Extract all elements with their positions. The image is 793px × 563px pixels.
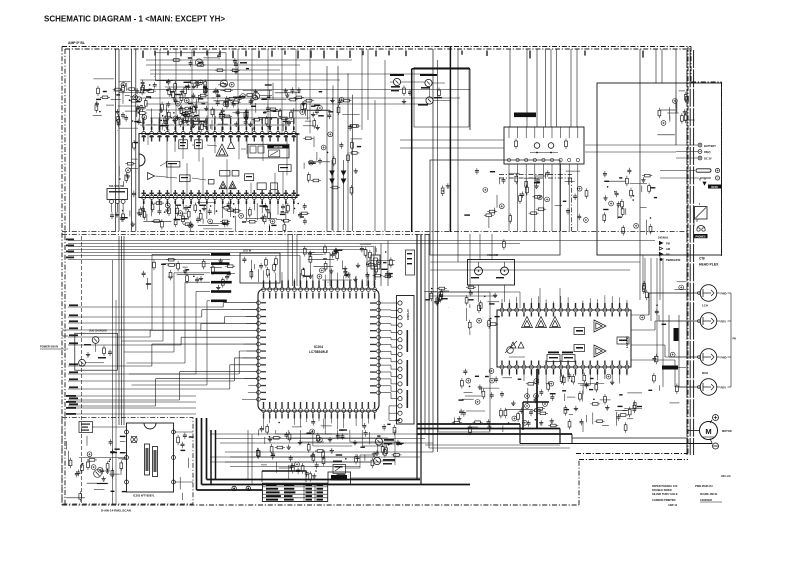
IC203 right parts bbox=[177, 433, 194, 500]
jack section components bbox=[603, 168, 657, 236]
svg-text:C0000022: C0000022 bbox=[700, 498, 713, 502]
signal legend FM bbox=[659, 241, 662, 244]
bias components below IC201 bbox=[137, 201, 310, 232]
board outline bottom-right step border bbox=[578, 460, 580, 506]
components above IC204 bbox=[302, 244, 395, 283]
wire verticals right section bbox=[639, 49, 641, 255]
thick rails to motor area bbox=[417, 423, 520, 425]
wire bus mid elbows down bbox=[387, 241, 389, 287]
volume pot VR201-L bbox=[475, 267, 483, 275]
svg-text:FWD: FWD bbox=[721, 291, 727, 295]
flex badge bbox=[674, 328, 679, 341]
components below power switch bbox=[483, 170, 588, 228]
svg-text:AN7358: AN7358 bbox=[274, 146, 283, 149]
components right of IC202 bbox=[640, 281, 686, 325]
IC201 internal REC OSC block bbox=[179, 140, 188, 149]
wires below power switch bbox=[508, 164, 510, 231]
wires region A horizontals set2 bbox=[146, 64, 300, 66]
terminal pins below table bbox=[232, 486, 236, 490]
wires head bus verticals bbox=[644, 258, 646, 293]
connector CN202 vertical labels bbox=[407, 330, 409, 352]
svg-text:LED IN: LED IN bbox=[243, 250, 251, 253]
transistor Q202 bbox=[220, 80, 227, 87]
motor plus terminal bbox=[713, 415, 719, 421]
op-amp IC IC201 body bbox=[139, 134, 297, 198]
IC204 right pins bbox=[377, 301, 381, 305]
IC202 internal amp triangles with double outline bbox=[522, 317, 533, 328]
remote jack bbox=[695, 207, 708, 220]
left mid components bbox=[142, 258, 236, 289]
board outline top border (double dash-dot) bbox=[62, 46, 691, 48]
IC201 pin row label fill bbox=[146, 133, 149, 135]
IC201 internal F/N SEL blocks bbox=[220, 170, 230, 176]
right mid section outline bbox=[430, 160, 560, 255]
head wiring harness bbox=[693, 292, 695, 294]
IC201 internal PD PB block bbox=[279, 165, 292, 172]
IC201 selector sub blocks bbox=[250, 146, 256, 153]
svg-text:R6(2): R6(2) bbox=[704, 150, 711, 154]
IC203 internal resistor arrays bbox=[145, 444, 150, 475]
LED IN block bbox=[240, 253, 280, 283]
net label column bbox=[211, 253, 230, 256]
svg-text:PB: PB bbox=[666, 253, 670, 257]
jack wiring bbox=[660, 170, 695, 172]
battery terminal circle 3 bbox=[698, 156, 702, 160]
mid-right vertical wires bbox=[642, 255, 644, 290]
wire bus upper left verticals bbox=[131, 49, 133, 231]
board outline left border (double dash-dot) bbox=[61, 47, 63, 506]
IC204 left pins bbox=[257, 301, 261, 305]
transistor Q206 bbox=[94, 470, 102, 478]
svg-text:SCHEMATIC DIAGRAM - 1 <MAIN: E: SCHEMATIC DIAGRAM - 1 <MAIN: EXCEPT YH> bbox=[44, 15, 225, 24]
IC202 VOL blocks bbox=[574, 328, 585, 335]
head flex cable vertical bus bbox=[686, 50, 688, 455]
svg-text:ANP-14: ANP-14 bbox=[668, 503, 678, 507]
connector CN202 pins bbox=[398, 301, 402, 305]
net name labels below top border bbox=[142, 51, 143, 58]
IC203 right pins bbox=[172, 430, 176, 434]
phones badge bbox=[694, 234, 708, 238]
components below IC204 bbox=[256, 419, 403, 474]
components right of IC201 bbox=[303, 91, 362, 196]
IC201 pin designator rows bbox=[143, 118, 144, 124]
svg-text:SUB CHARGER: SUB CHARGER bbox=[89, 330, 107, 333]
power switch contacts bbox=[534, 143, 540, 149]
svg-text:IC204: IC204 bbox=[314, 345, 323, 349]
IC201 internal AGC block bbox=[208, 180, 214, 185]
sub-board dash-dot border near power switch bbox=[499, 174, 572, 176]
crystal X201 bbox=[371, 255, 380, 269]
signal legend PB bbox=[659, 252, 662, 255]
svg-text:SILVER THRU' HOLE: SILVER THRU' HOLE bbox=[652, 492, 678, 496]
wire big loop rectangles center bbox=[438, 292, 490, 432]
battery terminal circle 2 bbox=[698, 150, 702, 154]
power switch S201 label bbox=[514, 113, 536, 118]
head coil REV bbox=[700, 379, 717, 396]
staircase wires to label column bbox=[119, 329, 152, 331]
signal legend AM bbox=[659, 247, 662, 250]
small box right of IC204 top bbox=[406, 250, 415, 275]
wires region A verticals from top border bbox=[159, 49, 161, 134]
svg-text:REV: REV bbox=[721, 385, 727, 389]
RC network cluster above IC201 right bbox=[227, 82, 320, 131]
IC202 T.REC block bbox=[617, 337, 629, 344]
DC jack pin circle 1 bbox=[715, 168, 719, 172]
PH bracket bbox=[730, 293, 732, 387]
wire horizontals into jack box bbox=[400, 139, 504, 141]
transistor Q207 bbox=[92, 337, 99, 344]
diode D202 pair bbox=[341, 171, 346, 175]
IC202 internal transistor pair bbox=[507, 347, 514, 354]
head coil REV bbox=[700, 313, 717, 330]
mute badge bbox=[662, 366, 678, 370]
IC201 top pins bbox=[142, 132, 146, 136]
components above jack box bbox=[657, 91, 694, 135]
IC204 top pins bbox=[262, 288, 266, 292]
svg-text:PB/REC/FM: PB/REC/FM bbox=[666, 258, 680, 262]
svg-text:PWB MAIN 2H: PWB MAIN 2H bbox=[695, 484, 713, 488]
svg-text:C'B: C'B bbox=[699, 257, 705, 261]
svg-text:M: M bbox=[705, 427, 711, 436]
output network below IC202 bbox=[500, 373, 643, 433]
IC201 internal type badge bbox=[267, 145, 289, 149]
signal legend PB/REC/FM bbox=[659, 258, 662, 261]
svg-text:LC75854W-E: LC75854W-E bbox=[309, 350, 328, 354]
svg-text:REV: REV bbox=[721, 319, 727, 323]
svg-text:FM: FM bbox=[666, 242, 670, 246]
wires IC204 bottom to lower bus bbox=[275, 430, 277, 434]
signal routing table bbox=[262, 483, 327, 501]
wires inside motor block bbox=[92, 426, 126, 428]
wire bus mid horizontals lower set bbox=[68, 259, 230, 261]
svg-text:PAPER PHENOL 100: PAPER PHENOL 100 bbox=[652, 484, 678, 488]
svg-text:HD LAC: HD LAC bbox=[721, 474, 731, 478]
motor drive section dashed box bbox=[62, 418, 193, 505]
IC202 sample/muting blocks bbox=[547, 355, 560, 362]
battery terminal B+ circle bbox=[698, 143, 702, 147]
wire verticals top middle bbox=[361, 49, 363, 130]
left lower labels column bbox=[66, 395, 76, 397]
RC network cluster above IC201 left bbox=[113, 79, 233, 132]
svg-text:PHONES: PHONES bbox=[695, 235, 706, 238]
sparse parts top band bbox=[155, 53, 250, 77]
svg-text:SIGNAL: SIGNAL bbox=[658, 236, 669, 240]
svg-text:CARBON PRINTED: CARBON PRINTED bbox=[652, 498, 676, 502]
horizontal section divider (dash-dot) bbox=[62, 231, 688, 233]
svg-text:DC 3V: DC 3V bbox=[704, 157, 712, 161]
svg-text:DC3V: DC3V bbox=[711, 186, 718, 189]
motor driver IC203 body bbox=[127, 423, 174, 492]
connector CN201 support parts bbox=[111, 213, 113, 216]
DC jack lower contact bbox=[700, 177, 711, 179]
IC201 internal selector block bbox=[248, 144, 289, 158]
IC201 internal PB SEL block bbox=[180, 175, 191, 182]
svg-text:RCH: RCH bbox=[702, 371, 708, 375]
DC jack polarity diode bbox=[703, 182, 706, 185]
svg-text:AM: AM bbox=[666, 247, 670, 251]
DC jack badge bbox=[708, 185, 722, 189]
wire verticals fan band bundle bbox=[118, 236, 120, 425]
svg-text:LCH: LCH bbox=[702, 304, 708, 308]
IC201 internal wiring bbox=[147, 134, 149, 146]
transistor Q61 DETECTOR bbox=[374, 457, 381, 464]
power switch internal resistors bbox=[515, 139, 517, 142]
IC202 bottom pins bbox=[500, 365, 504, 369]
wire fan from left edge to IC204 bbox=[68, 306, 223, 308]
wires hold area bbox=[345, 467, 360, 469]
svg-text:IC203 WTY8287L: IC203 WTY8287L bbox=[133, 494, 155, 498]
svg-text:IN HRE 482 91: IN HRE 482 91 bbox=[700, 492, 718, 496]
wire long verticals x433 bbox=[432, 49, 434, 452]
head bias parts bbox=[648, 352, 686, 403]
svg-text:PH: PH bbox=[733, 337, 737, 341]
transistor Q206b bbox=[426, 97, 433, 104]
IC201 internal MTL LINE block bbox=[245, 174, 254, 181]
wire lower horizontals bbox=[225, 451, 433, 453]
svg-text:AMP IF BL: AMP IF BL bbox=[68, 41, 85, 45]
fan left labels bbox=[69, 304, 78, 306]
left margin parts bbox=[93, 79, 121, 116]
LED IN block parts bbox=[242, 256, 277, 282]
diode D201 pair bbox=[330, 171, 334, 175]
wires above IC202 bbox=[430, 291, 520, 293]
svg-text:SOL/VOL SW: SOL/VOL SW bbox=[109, 185, 125, 188]
connector CN202 strip body bbox=[397, 296, 415, 425]
thick output wire bbox=[536, 369, 538, 429]
wires transistor area bbox=[390, 81, 394, 83]
bold feed wires bbox=[411, 69, 413, 232]
wire verticals to power switch bbox=[509, 49, 511, 127]
headphone jack icon bbox=[697, 228, 700, 231]
ground symbols below IC204 bbox=[269, 437, 271, 440]
components above IC202 bbox=[424, 286, 497, 308]
motor minus terminal bbox=[713, 443, 719, 449]
head coil FWD bbox=[700, 349, 717, 366]
svg-text:D-AW-14-RM3, SCAN: D-AW-14-RM3, SCAN bbox=[101, 509, 131, 513]
IC204 bottom pins bbox=[262, 409, 266, 413]
sub charger parts bbox=[103, 346, 105, 349]
transistor Q60 MUTE bbox=[375, 438, 382, 445]
wire bus mid horizontals bbox=[388, 240, 655, 242]
board outline right border (dash-dot) bbox=[687, 47, 689, 454]
board outline bottom border (dash-dot) bbox=[62, 504, 579, 506]
wires near table bbox=[261, 471, 263, 482]
IC203 left pins bbox=[125, 430, 129, 434]
wire verticals right of IC201 bbox=[326, 66, 328, 231]
svg-text:DISPLAY: DISPLAY bbox=[406, 309, 410, 320]
parts above table bbox=[261, 462, 319, 482]
stray vertical wires bottom bbox=[247, 430, 249, 480]
IC201 internal VCO blocks bbox=[257, 183, 266, 190]
wires below IC204 horizontals bbox=[210, 433, 430, 435]
audio power amp IC202 body bbox=[497, 310, 631, 367]
box right of table bbox=[328, 472, 351, 484]
wires jack box to amp bbox=[639, 255, 641, 300]
IC202 internal output amps bbox=[594, 320, 606, 332]
wire verticals from strip down bbox=[416, 234, 418, 424]
DC jack body bbox=[696, 169, 711, 172]
IC201 pin number labels bbox=[143, 127, 145, 131]
bias parts near Q204 bbox=[403, 86, 405, 89]
volume block wires bbox=[478, 285, 480, 302]
wire dashed inner left border bbox=[81, 236, 83, 503]
svg-text:FWD: FWD bbox=[721, 355, 727, 359]
left edge connector stubs bbox=[62, 329, 68, 331]
transistor Q208 bbox=[79, 359, 86, 366]
IC201 internal vertical wires bbox=[166, 136, 168, 179]
battery wires bbox=[676, 144, 698, 146]
caps below volume bbox=[466, 300, 499, 335]
IC201 internal AF OSC block bbox=[195, 140, 203, 149]
motor wires bbox=[710, 420, 712, 423]
wire long vertical x458 bbox=[457, 49, 459, 262]
wire loop around battery detector bbox=[414, 67, 469, 127]
sub charger block bbox=[75, 333, 118, 370]
low pass filter block bbox=[79, 422, 93, 433]
border crossing labels left bbox=[66, 239, 74, 241]
svg-text:HEAD PLEX: HEAD PLEX bbox=[699, 263, 719, 267]
thick power rail verticals bbox=[196, 418, 198, 490]
IC201 internal EQ block bbox=[166, 161, 180, 167]
left edge components bbox=[119, 140, 138, 227]
electrolytic caps C95/C96 bbox=[525, 394, 530, 399]
svg-text:LA4583M: LA4583M bbox=[625, 335, 629, 348]
motor M1 bbox=[700, 422, 718, 440]
wires IC202 to head circles bbox=[631, 314, 649, 316]
IC201 bottom pins bbox=[142, 195, 146, 199]
wires IC204 right pins to strip bbox=[381, 302, 392, 304]
IC202 top pins bbox=[500, 308, 504, 312]
svg-text:POWER SW IN: POWER SW IN bbox=[40, 345, 58, 349]
diode D2010 badge bbox=[337, 474, 346, 477]
svg-text:MOTOR: MOTOR bbox=[722, 429, 732, 433]
svg-text:DOUBLE SIDED: DOUBLE SIDED bbox=[652, 488, 672, 492]
IC203 internal transistor bbox=[131, 436, 137, 443]
cap with ground near top bbox=[235, 62, 237, 65]
wire loop top left bbox=[155, 53, 226, 81]
wires right of divider verticals bbox=[469, 234, 471, 292]
motor drive parts bbox=[66, 436, 127, 502]
wires mid right horizontals bbox=[430, 261, 640, 263]
wire bus left edge verticals bbox=[115, 49, 117, 231]
board outline right step to DC jack section bbox=[691, 81, 722, 83]
head coil FWD bbox=[700, 285, 717, 302]
transistor Q203 bbox=[252, 92, 259, 99]
thick power rail horizontals bbox=[207, 479, 421, 481]
wire verticals above IC204 bbox=[287, 234, 289, 286]
below strip parts bbox=[452, 369, 500, 436]
wire top horizontal nets bbox=[146, 59, 352, 61]
volume pot VR201-R bbox=[501, 267, 509, 275]
wires strip lower pins bbox=[389, 405, 398, 407]
transistor Q201 bbox=[195, 59, 202, 66]
power switch S201 body bbox=[504, 127, 584, 164]
IC201 internal op-amp triangles bbox=[216, 144, 228, 156]
svg-text:BATTERY: BATTERY bbox=[704, 144, 716, 148]
transistor Q204 BATT DET bbox=[393, 78, 400, 85]
DC jack pin circle 2 bbox=[715, 176, 719, 180]
transistor Q205 COLLAPSION bbox=[425, 79, 432, 86]
hold switch bbox=[333, 464, 345, 473]
connector CN201 3P bbox=[107, 189, 128, 200]
right mid sparse bbox=[441, 168, 546, 250]
power input / jack section box bbox=[597, 83, 722, 255]
microcontroller IC204 body bbox=[258, 289, 379, 411]
wires bottom mid bbox=[429, 447, 570, 449]
volume control VR201 block bbox=[468, 260, 515, 286]
